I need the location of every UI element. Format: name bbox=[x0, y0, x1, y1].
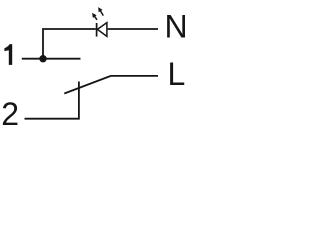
LED light emission arrow (upper-right) bbox=[98, 7, 103, 16]
wire LED to terminal N bbox=[108, 28, 158, 30]
LED D1 cathode bar bbox=[96, 23, 98, 37]
junction node dot bbox=[39, 55, 46, 62]
svg-text:N: N bbox=[165, 9, 188, 45]
LED light emission arrow (lower-left) bbox=[92, 13, 97, 20]
svg-text:2: 2 bbox=[1, 96, 19, 132]
switch S1 moving blade bbox=[64, 76, 110, 94]
wire from terminal 2 with riser to switch pole bbox=[25, 82, 79, 119]
wire from terminal 1 bbox=[22, 58, 81, 60]
wire junction to LED (vertical + horizontal to lamp) bbox=[43, 29, 96, 59]
LED D1 triangle bbox=[97, 23, 107, 37]
terminal label 1 bbox=[4, 44, 12, 65]
svg-text:L: L bbox=[168, 56, 186, 92]
wire switch to terminal L bbox=[110, 75, 158, 77]
